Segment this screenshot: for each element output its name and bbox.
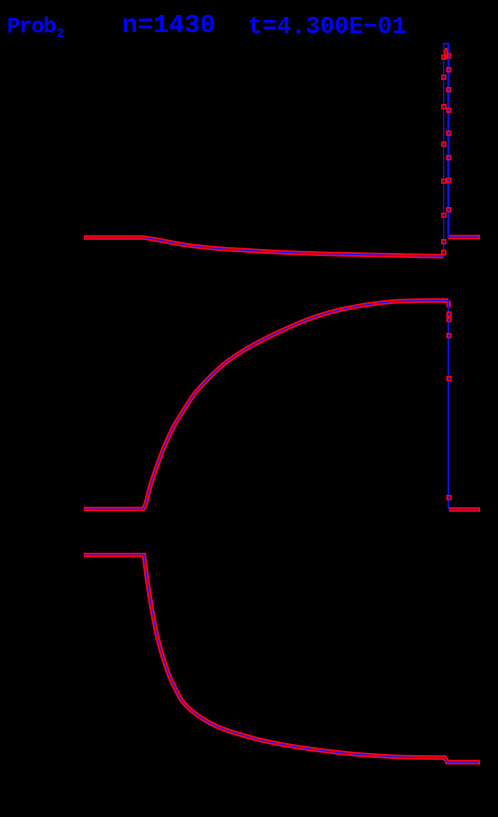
red square markers on spike left line (442, 55, 446, 254)
blue curve: bottom panel incl. step (84, 555, 480, 762)
red marker band: middle panel flat+rise+plateau (84, 301, 448, 509)
red square markers on middle panel drop line (447, 312, 451, 499)
svg-text:2: 2 (57, 27, 65, 41)
red start/end caps (first & last square marker edges) (85, 235, 480, 765)
red marker band: top panel flat+decay curve (84, 238, 444, 257)
red square markers on spike right line (447, 54, 451, 212)
svg-text:n=1430: n=1430 (122, 10, 216, 40)
blue curve: top panel incl. spike (84, 238, 444, 257)
red arch at top of spike (445, 49, 447, 59)
red marker band: top panel right segment after barrier (448, 235, 480, 240)
svg-text:Prob: Prob (7, 15, 56, 40)
svg-text:t=4.300E−01: t=4.300E−01 (248, 14, 406, 41)
blue segment right of barrier, middle panel (448, 509, 479, 511)
red corner tick at top of middle drop (446, 301, 451, 308)
red marker band: bottom panel flat+fall+tail+step (84, 555, 480, 762)
blue vertical drop of middle curve (447, 301, 449, 509)
red marker band: middle panel right bottom segment (449, 507, 480, 512)
blue segment right of barrier, top panel (448, 236, 480, 238)
blue curve: middle panel incl. drop (84, 301, 448, 509)
blue spike top cap and right line (443, 44, 449, 237)
blue spike left line (443, 44, 445, 257)
blue spike right line thick part (447, 46, 449, 234)
